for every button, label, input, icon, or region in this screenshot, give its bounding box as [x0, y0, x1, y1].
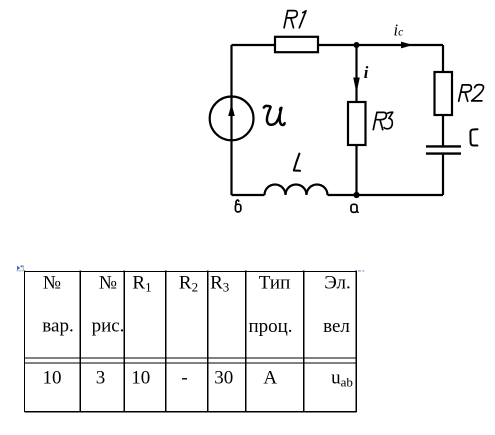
- svg-text:10: 10: [43, 367, 62, 388]
- svg-text:№: №: [43, 272, 61, 293]
- svg-text:вар.: вар.: [42, 316, 73, 337]
- svg-text:R2: R2: [179, 272, 198, 294]
- svg-text:uab: uab: [331, 367, 353, 389]
- svg-text:А: А: [263, 367, 277, 388]
- svg-text:вел: вел: [323, 316, 350, 337]
- svg-text:30: 30: [214, 367, 233, 388]
- svg-text:проц.: проц.: [248, 316, 292, 337]
- svg-text:Эл.: Эл.: [324, 272, 351, 293]
- svg-text:i: i: [364, 63, 369, 82]
- svg-text:-: -: [181, 367, 187, 388]
- svg-text:R3: R3: [210, 272, 229, 294]
- svg-text:рис.: рис.: [92, 316, 125, 337]
- svg-text:3: 3: [96, 367, 106, 388]
- svg-text:№: №: [99, 272, 117, 293]
- svg-text:ic: ic: [394, 21, 404, 40]
- svg-text:Тип: Тип: [259, 272, 290, 293]
- svg-text:10: 10: [131, 367, 150, 388]
- svg-text:R1: R1: [132, 272, 151, 294]
